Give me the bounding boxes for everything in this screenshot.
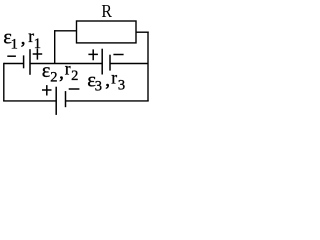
value label "ε2, r2" — [42, 59, 79, 86]
wire: bottom branch, left segment to cell E2 — [3, 100, 56, 102]
svg-text:3: 3 — [95, 79, 102, 95]
battery cell E2 (emf ε2, internal r2): long positive plate — [55, 87, 57, 115]
polarity minus sign of cell E2 — [69, 88, 80, 90]
svg-text:r: r — [65, 59, 71, 79]
svg-text:2: 2 — [50, 69, 57, 85]
svg-text:r: r — [111, 68, 117, 88]
value label "ε1, r1" — [3, 26, 41, 53]
resistor R (box symbol) — [77, 21, 137, 43]
svg-text:1: 1 — [11, 37, 18, 53]
svg-text:,: , — [105, 70, 110, 90]
wire: middle branch, left segment to cell E1 — [4, 63, 24, 65]
svg-text:2: 2 — [71, 68, 78, 84]
svg-text:R: R — [101, 1, 112, 21]
polarity plus sign of cell E2 — [42, 85, 52, 95]
battery cell E3 (emf ε3, internal r3): short negative plate — [109, 55, 111, 71]
wire: right rail vertical (node B) — [147, 32, 149, 101]
wire: top branch horizontal into R (node A side) — [55, 30, 77, 32]
polarity plus sign of cell E3 — [88, 49, 98, 60]
polarity plus sign of cell E1 — [33, 48, 43, 59]
polarity minus sign of cell E3 — [113, 54, 123, 56]
polarity minus sign of cell E1 — [7, 55, 16, 57]
wire: middle branch, right segment from E3 to right rail — [110, 63, 148, 65]
wire: left rail vertical — [3, 63, 5, 101]
value label "ε3, r3" — [87, 68, 125, 95]
battery cell E3 (emf ε3, internal r3): long positive plate — [101, 49, 103, 75]
battery cell E1 (emf ε1, internal r1): short negative plate — [23, 55, 25, 68]
svg-text:,: , — [59, 63, 64, 83]
battery cell E2 (emf ε2, internal r2): short negative plate — [65, 91, 67, 107]
wire: horizontal from R right side to right rail — [136, 31, 149, 33]
wire: middle branch, centre segment (node A junction) between E1 and E3 — [30, 63, 102, 65]
svg-text:,: , — [21, 28, 26, 48]
svg-text:1: 1 — [34, 36, 41, 52]
wire: top branch vertical from node A up to R — [54, 30, 56, 63]
wire: bottom branch, right segment from E2 to right rail — [66, 100, 149, 102]
svg-text:3: 3 — [118, 77, 125, 93]
battery cell E1 (emf ε1, internal r1): long positive plate — [29, 49, 31, 75]
